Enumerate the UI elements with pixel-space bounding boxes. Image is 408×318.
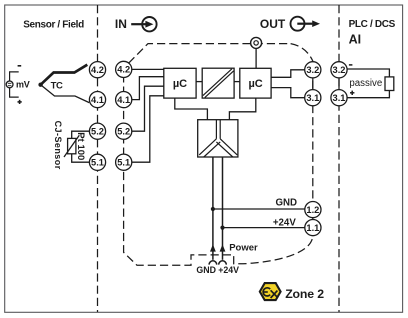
wire GND	[213, 208, 305, 210]
terminal 5.1 device	[116, 154, 132, 170]
svg-text:GND: GND	[276, 197, 298, 208]
svg-text:GND: GND	[196, 265, 216, 275]
svg-text:4.1: 4.1	[117, 95, 130, 105]
svg-text:IN: IN	[115, 17, 127, 31]
terminal 3.1 PLC	[331, 90, 347, 106]
Pt 100 resistor	[64, 131, 98, 162]
svg-text:+24V: +24V	[218, 265, 239, 275]
svg-text:3.2: 3.2	[333, 65, 346, 75]
socket right	[219, 261, 227, 265]
wire uC2 out bottom to 3.1	[271, 88, 313, 98]
svg-text:1.2: 1.2	[306, 205, 319, 215]
terminal 3.2 device	[305, 62, 321, 78]
terminal 5.2 device	[116, 123, 132, 139]
wire power left	[212, 157, 214, 260]
separator field dashed line	[97, 5, 99, 312]
wire uC2 bottom to DCDC	[229, 98, 255, 120]
icon IN arrow-circle	[131, 17, 156, 31]
wire 3.2 to passive load	[339, 69, 389, 77]
wire shield drop	[255, 48, 257, 68]
svg-text:passive: passive	[349, 78, 382, 89]
wire 4.1 to uC1	[124, 77, 164, 100]
svg-text:TC: TC	[51, 80, 63, 91]
svg-text:OUT: OUT	[260, 17, 286, 31]
isolator block	[202, 68, 234, 98]
svg-text:Pt 100: Pt 100	[75, 132, 86, 160]
svg-text:5.1: 5.1	[91, 158, 104, 168]
svg-text:5.2: 5.2	[117, 127, 130, 137]
svg-text:3.2: 3.2	[306, 65, 319, 75]
wire 4.2 to uC1	[124, 68, 164, 70]
terminal 4.1 field	[89, 92, 105, 108]
junction dot +24V	[220, 226, 224, 230]
svg-text:µC: µC	[173, 78, 187, 90]
wire 5.1 to uC1	[124, 96, 164, 162]
terminal circles	[89, 61, 347, 235]
svg-text:4.2: 4.2	[117, 65, 130, 75]
wire power right	[222, 157, 224, 260]
wire uC1 bottom to DCDC	[175, 98, 208, 120]
power pin arrow right	[220, 244, 226, 251]
terminal 5.1 field	[89, 154, 105, 170]
Ex hexagon	[260, 283, 281, 300]
svg-text:+24V: +24V	[273, 218, 296, 229]
terminal 1.2	[305, 202, 321, 218]
wire passive load to 3.1	[339, 91, 389, 98]
junction dot GND	[211, 207, 215, 211]
boundary solid segment between 3.2/3.1 col2	[338, 77, 340, 91]
wire uC1-isolator	[196, 81, 202, 83]
svg-text:4.1: 4.1	[91, 95, 104, 105]
svg-text:5.2: 5.2	[91, 127, 104, 137]
wire +24V	[223, 227, 305, 229]
svg-text:3.1: 3.1	[306, 93, 319, 103]
boundary solid segment between 3.2/3.1	[312, 77, 314, 91]
thermocouple TC	[41, 65, 90, 103]
terminal 3.1 device	[305, 90, 321, 106]
svg-text:mV: mV	[16, 79, 30, 89]
svg-text:Sensor / Field: Sensor / Field	[23, 19, 84, 30]
device boundary dashed (top)	[129, 44, 291, 64]
device boundary dashed (right+bottom+left)	[124, 44, 313, 266]
passive load resistor	[385, 77, 394, 91]
shield terminal (double circle)	[251, 37, 262, 48]
svg-text:1.1: 1.1	[306, 223, 319, 233]
op block uC1	[164, 68, 196, 98]
svg-text:3.1: 3.1	[333, 93, 346, 103]
svg-text:Zone 2: Zone 2	[285, 287, 324, 301]
svg-text:CJ-Sensor: CJ-Sensor	[53, 121, 63, 170]
minus sign at 3.2	[349, 64, 353, 66]
svg-text:Power: Power	[229, 243, 258, 254]
op block uC2	[240, 68, 271, 98]
power pin arrow left	[210, 244, 216, 251]
svg-text:AI: AI	[349, 32, 362, 46]
terminal 5.2 field	[89, 123, 105, 139]
terminal 1.1	[305, 220, 321, 236]
DC/DC converter block	[198, 120, 238, 157]
svg-text:µC: µC	[248, 78, 262, 90]
plus sign at 3.1	[350, 91, 354, 95]
separator PLC dashed line	[338, 5, 340, 312]
svg-text:PLC / DCS: PLC / DCS	[349, 19, 396, 30]
terminal 3.2 PLC	[331, 62, 347, 78]
mV source	[6, 66, 22, 104]
svg-text:5.1: 5.1	[117, 158, 130, 168]
terminal 4.2 device	[116, 61, 132, 77]
terminal 4.1 device	[116, 92, 132, 108]
wire 5.2 to uC1	[124, 86, 164, 131]
icon OUT arrow-circle	[291, 17, 321, 31]
socket left	[209, 261, 217, 265]
terminal 4.2 field	[89, 62, 105, 78]
wire uC2 out top to 3.2	[271, 70, 313, 78]
wire isolator-uC2	[234, 81, 240, 83]
svg-text:4.2: 4.2	[91, 65, 104, 75]
